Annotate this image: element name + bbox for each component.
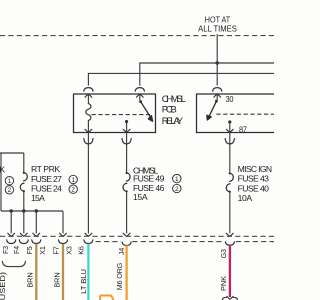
- circled 2 RT PRK: [69, 185, 77, 194]
- svg-text:87: 87: [239, 124, 247, 134]
- label CHMSL PCB RELAY: [162, 93, 186, 126]
- connector at coil pin top: [84, 88, 93, 92]
- wire RT PRK fuse out: [23, 191, 25, 211]
- svg-text:X3: X3: [64, 246, 73, 255]
- connector at pin 30 top: [213, 88, 222, 92]
- connector socket G3: [225, 242, 234, 245]
- connector socket F3: [7, 240, 16, 244]
- wire J4 lower run: [126, 191, 128, 233]
- node bus F5: [35, 209, 38, 212]
- circled 2 CHMSL: [173, 184, 181, 193]
- wire RT PRK fuse feed: [23, 153, 25, 173]
- node junction feed/top bus: [215, 61, 219, 65]
- wire feed down to pin 30: [216, 63, 218, 86]
- pin 87 dot: [228, 120, 231, 123]
- svg-text:10A: 10A: [238, 193, 253, 203]
- coil element: [87, 94, 89, 104]
- svg-text:F5: F5: [25, 246, 34, 254]
- svg-text:FUSE 49: FUSE 49: [133, 173, 165, 183]
- wire drop F3: [10, 211, 12, 233]
- connector below box pin 87: [225, 139, 234, 144]
- switch contact dot: [139, 100, 142, 103]
- circled 1 RT PRK: [69, 175, 77, 184]
- arrow J4 at connector: [123, 233, 130, 236]
- fuse CHMSL FUSE 49/46: [126, 173, 130, 181]
- svg-text:1: 1: [71, 177, 75, 184]
- node bus F3: [10, 209, 13, 212]
- label MISC IGN fuse block: [238, 164, 272, 203]
- wire J4 upper run: [126, 133, 128, 174]
- connector below box coil pin: [84, 139, 93, 144]
- svg-text:F4: F4: [12, 246, 21, 254]
- svg-text:ALL TIMES: ALL TIMES: [198, 23, 237, 33]
- pin arrow down coil bottom: [85, 129, 92, 132]
- wire drop F5: [35, 211, 37, 233]
- svg-text:15A: 15A: [31, 193, 45, 203]
- svg-text:M6 ORG: M6 ORG: [115, 262, 124, 290]
- svg-text:LT BLU: LT BLU: [79, 269, 88, 294]
- svg-text:FUSE 24: FUSE 24: [31, 184, 62, 194]
- svg-text:F7: F7: [52, 246, 61, 254]
- wire BRN from F7: [62, 244, 64, 300]
- wire PNK from G3: [229, 245, 231, 297]
- dashed link coil to switch: [92, 114, 150, 116]
- svg-text:(NOT USED): (NOT USED): [0, 272, 7, 300]
- svg-text:2: 2: [175, 186, 179, 193]
- circled 1 CHMSL: [173, 174, 181, 183]
- dashed link right box: [216, 113, 274, 115]
- connector at switch pin top: [135, 88, 144, 92]
- svg-text:PCB: PCB: [162, 104, 177, 115]
- svg-text:RELAY: RELAY: [162, 115, 184, 126]
- svg-text:FUSE 43: FUSE 43: [238, 173, 270, 183]
- wire left feed horizontal: [0, 152, 24, 154]
- label RT PRK fuse block: [31, 164, 62, 203]
- svg-text:K: K: [0, 164, 5, 174]
- svg-text:G3: G3: [219, 249, 228, 258]
- node bus F4: [22, 209, 25, 212]
- svg-text:1: 1: [175, 176, 179, 183]
- svg-text:15A: 15A: [133, 192, 148, 202]
- wire ORG from J4: [125, 245, 127, 300]
- svg-text:2: 2: [8, 187, 12, 194]
- dashed boundary top: [0, 35, 274, 37]
- fuse MISC IGN FUSE 43/40: [230, 173, 234, 181]
- svg-text:K6: K6: [76, 246, 85, 255]
- connector socket J4: [122, 242, 131, 245]
- arrow K6 at connector: [85, 233, 92, 236]
- orange jumper bottom: [100, 295, 113, 300]
- pin 87 arrow down: [226, 129, 233, 132]
- label HOT AT ALL TIMES: [198, 15, 237, 34]
- connector below box center pin: [122, 139, 131, 144]
- arrow G3 at connector: [226, 233, 233, 236]
- connector socket F7: [59, 240, 68, 244]
- pin arrow up coil: [85, 94, 92, 97]
- connector fragment bottom right: [222, 297, 226, 300]
- fuse RT PRK FUSE 27/24: [24, 173, 28, 181]
- pin arrow down bottom center: [123, 129, 130, 132]
- pin dot bottom center: [125, 120, 128, 123]
- wire K6 run: [87, 133, 89, 234]
- circled 1 left block: [5, 177, 13, 186]
- label CHMSL fuse block: [133, 165, 165, 202]
- svg-text:PNK: PNK: [219, 276, 228, 291]
- wire left edge vertical: [0, 153, 2, 211]
- wire top bus A to relay switch pin: [140, 63, 274, 86]
- wire top bus B to relay coil pin: [88, 73, 274, 85]
- dashed connector line 2: [96, 241, 275, 243]
- svg-text:F3: F3: [1, 246, 10, 254]
- relay box left: [74, 94, 156, 133]
- svg-text:FUSE 27: FUSE 27: [31, 174, 62, 184]
- wire drop F7 (bus corner): [62, 211, 64, 233]
- wire MISC IGN lower run: [229, 192, 231, 234]
- svg-text:BRN: BRN: [26, 272, 35, 287]
- pin 30 arrow up: [214, 94, 221, 97]
- svg-text:RT PRK: RT PRK: [31, 164, 60, 174]
- connector socket F4: [19, 240, 28, 244]
- wire drop F4: [23, 211, 25, 233]
- wire bottom bus: [1, 210, 63, 212]
- svg-text:X1: X1: [38, 246, 47, 255]
- arrow PNK bottom: [227, 296, 233, 299]
- connector socket F5: [32, 240, 41, 244]
- dashed connector line 1: [0, 235, 274, 237]
- pin arrow up switch: [136, 94, 143, 97]
- svg-text:2: 2: [71, 187, 75, 194]
- svg-text:CHMSL: CHMSL: [162, 93, 186, 104]
- wire battery feed from HOT AT ALL TIMES: [216, 34, 218, 63]
- connector socket K6: [84, 240, 93, 244]
- svg-text:30: 30: [226, 94, 234, 104]
- brace not-used pins: [2, 261, 25, 267]
- wire BRN from F5: [35, 244, 37, 300]
- wire LT BLU from K6: [87, 244, 89, 300]
- svg-text:J4: J4: [117, 248, 126, 255]
- svg-text:1: 1: [8, 178, 12, 185]
- relay box right: [197, 94, 277, 133]
- wire MISC IGN upper run: [229, 133, 231, 174]
- switch contact dot right box: [215, 100, 218, 103]
- switch arm right box: [209, 101, 216, 116]
- svg-text:BRN: BRN: [53, 272, 62, 287]
- circled 2 left block: [5, 186, 13, 195]
- switch arm: [141, 102, 151, 118]
